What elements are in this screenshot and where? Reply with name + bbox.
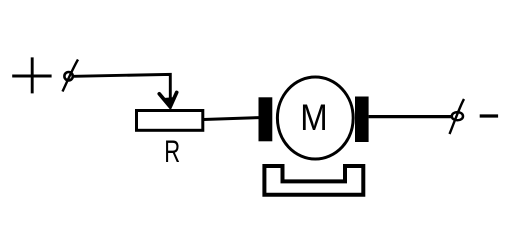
svg-text:M: M (300, 97, 327, 138)
terminal T1 (binding post, left) (63, 60, 79, 92)
brush B1 (left, filled) (259, 97, 273, 141)
wire from T1 to rheostat wiper corner (74, 74, 170, 99)
brush B2 (right, filled) (355, 97, 369, 143)
wire from resistor to left brush (204, 118, 260, 120)
svg-text:R: R (164, 133, 180, 169)
label M (300, 97, 327, 138)
terminal T2 (binding post, right) (450, 99, 465, 134)
wire from right brush to T2 (369, 115, 452, 118)
wiper arrow into resistor (159, 92, 176, 107)
motor stand bracket (264, 166, 363, 195)
label R (164, 133, 180, 169)
motor body circle (277, 77, 353, 159)
minus polarity label (-) (480, 114, 498, 117)
plus polarity label (+) (12, 57, 51, 93)
resistor R body (137, 111, 203, 131)
